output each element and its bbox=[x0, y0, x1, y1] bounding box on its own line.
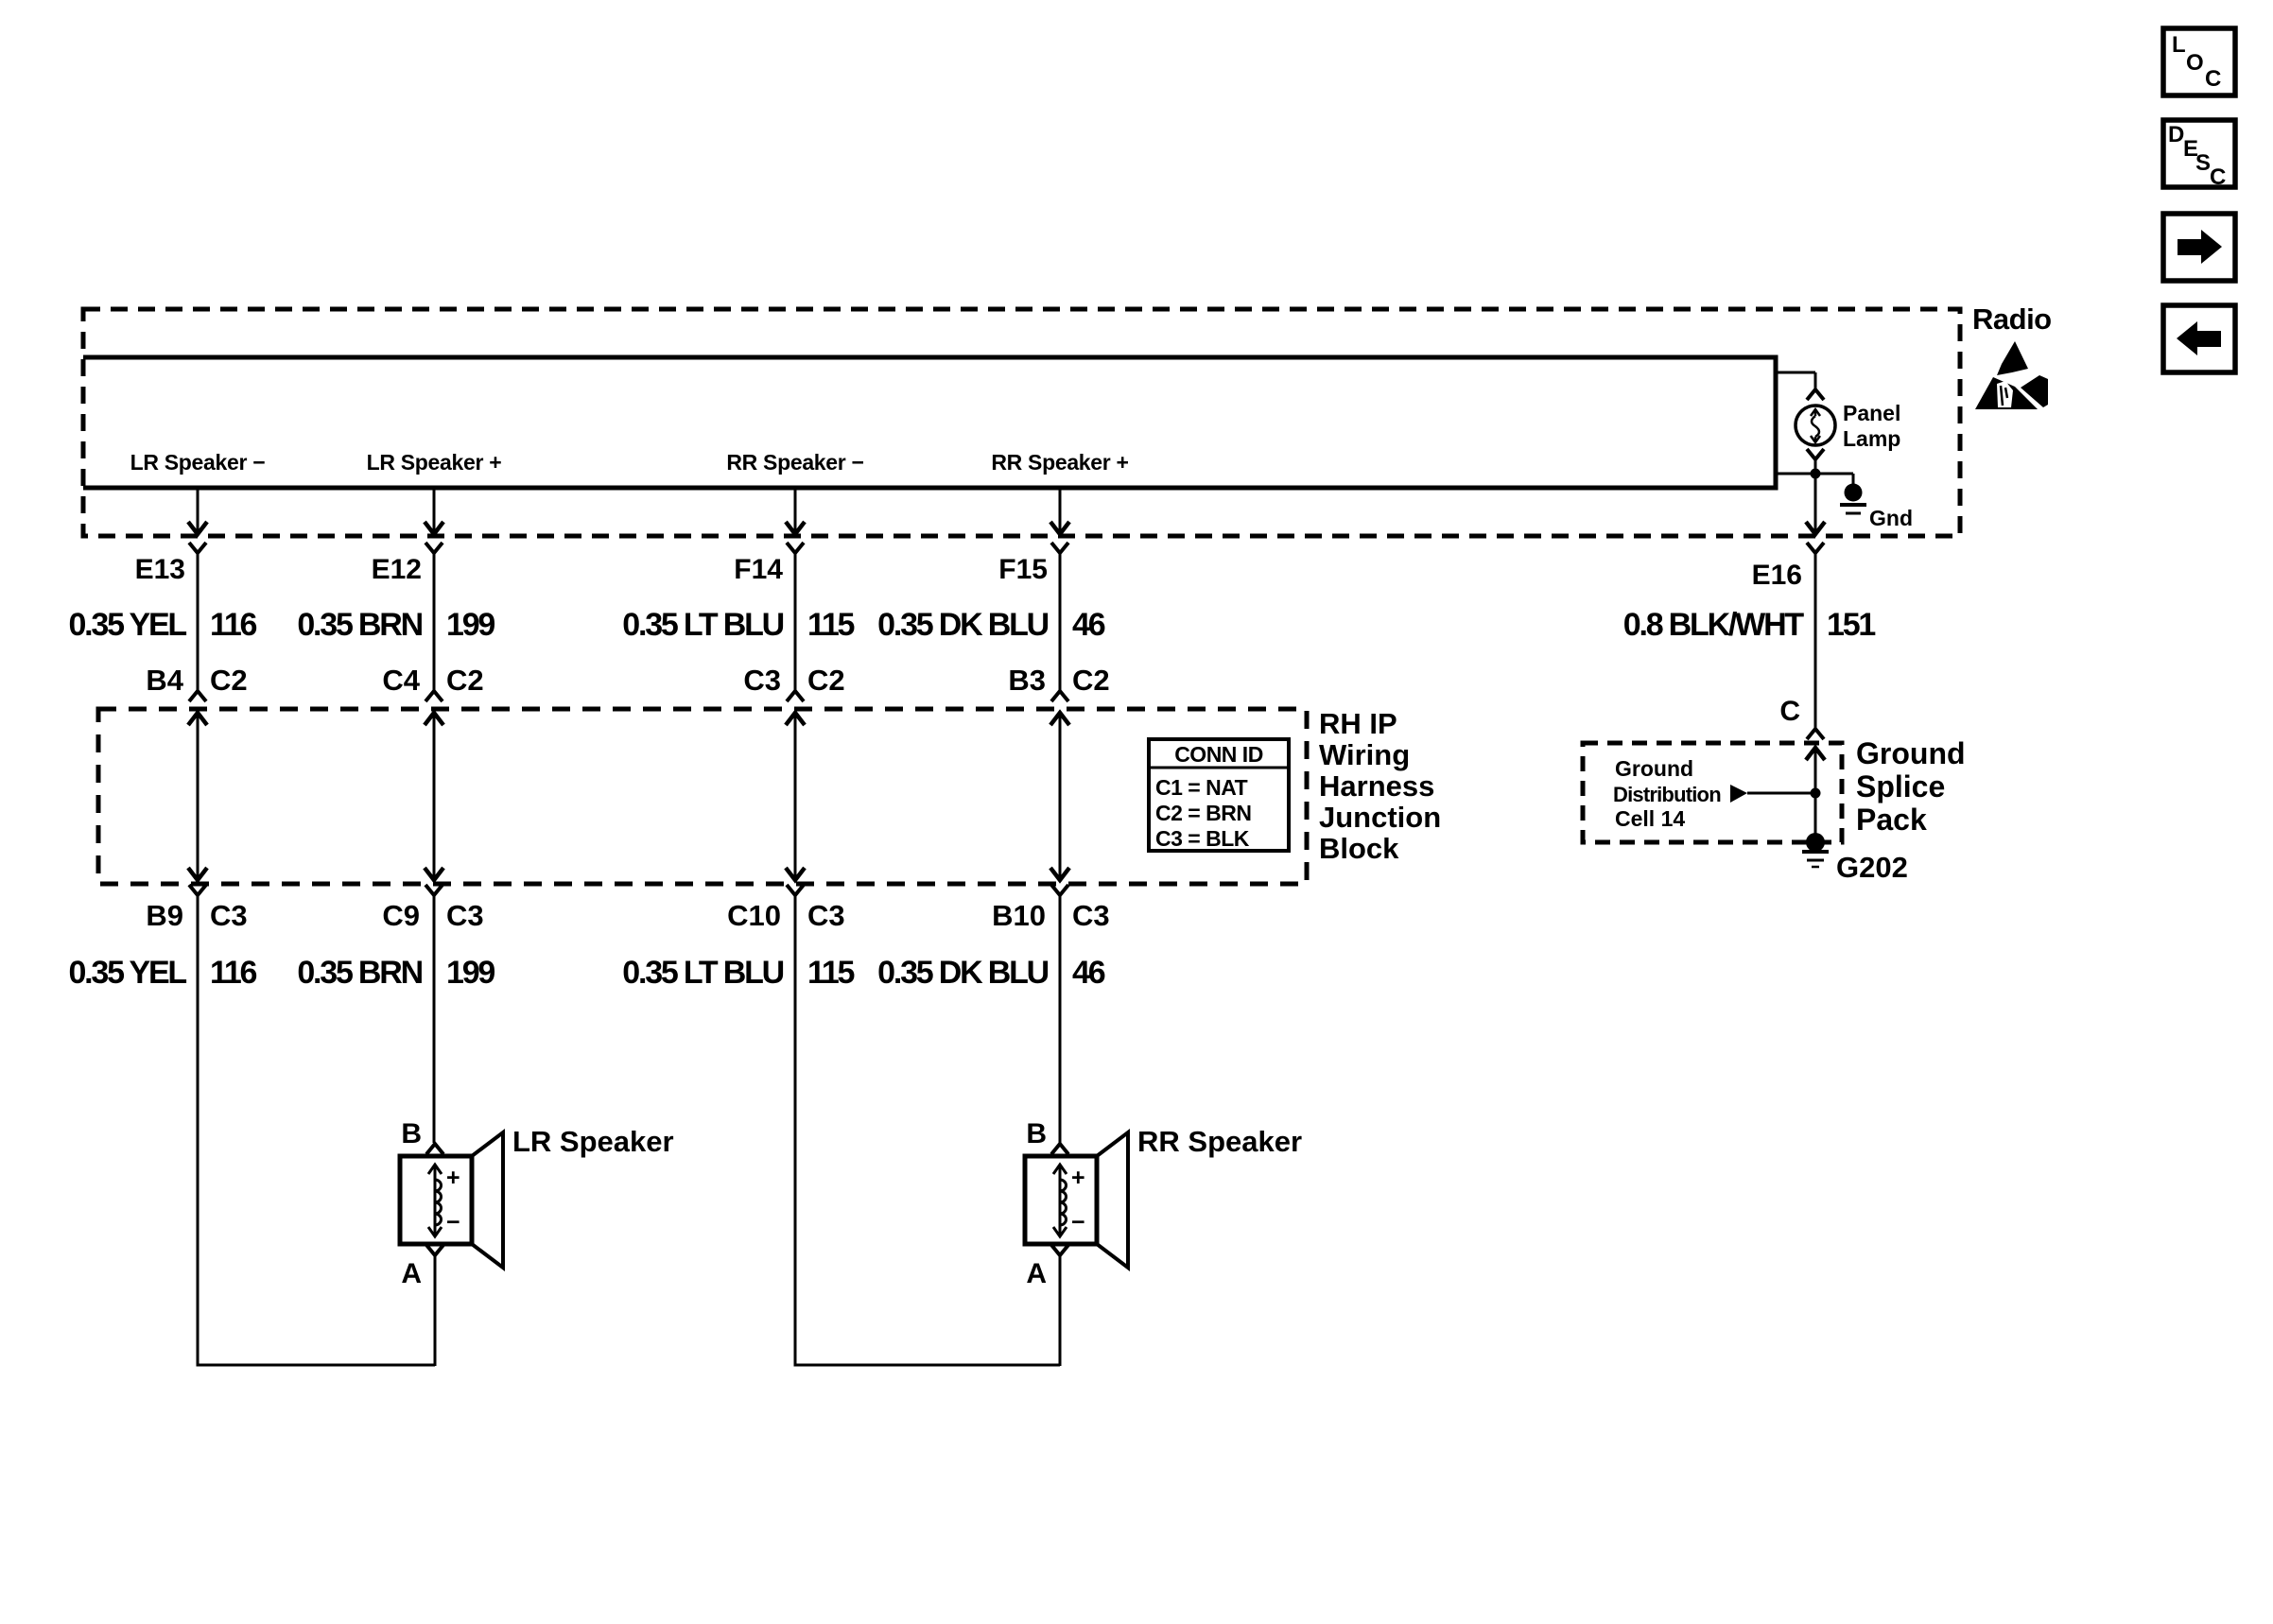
svg-text:0.35 BRN: 0.35 BRN bbox=[297, 607, 422, 643]
svg-text:G202: G202 bbox=[1836, 851, 1908, 884]
svg-text:46: 46 bbox=[1072, 955, 1105, 991]
svg-text:C2: C2 bbox=[807, 664, 845, 697]
svg-text:RR Speaker: RR Speaker bbox=[1137, 1125, 1302, 1158]
svg-text:199: 199 bbox=[446, 607, 495, 643]
svg-text:C2 = BRN: C2 = BRN bbox=[1155, 801, 1251, 825]
svg-text:199: 199 bbox=[446, 955, 495, 991]
svg-text:C9: C9 bbox=[382, 899, 420, 932]
svg-text:B3: B3 bbox=[1008, 664, 1046, 697]
svg-text:C: C bbox=[2205, 66, 2221, 92]
svg-text:Cell 14: Cell 14 bbox=[1615, 806, 1685, 831]
svg-text:F15: F15 bbox=[998, 554, 1048, 585]
svg-text:C2: C2 bbox=[446, 664, 484, 697]
svg-text:L: L bbox=[2172, 32, 2186, 58]
svg-text:Ground: Ground bbox=[1856, 736, 1966, 770]
svg-text:Lamp: Lamp bbox=[1843, 426, 1900, 451]
svg-text:Splice: Splice bbox=[1856, 769, 1945, 803]
svg-text:Ground: Ground bbox=[1615, 756, 1693, 781]
svg-text:46: 46 bbox=[1072, 607, 1105, 643]
svg-text:Junction: Junction bbox=[1319, 801, 1441, 834]
svg-text:S: S bbox=[2195, 150, 2211, 176]
svg-text:+: + bbox=[446, 1165, 460, 1191]
svg-text:−: − bbox=[1071, 1209, 1085, 1235]
svg-text:C: C bbox=[1779, 696, 1800, 727]
svg-text:B9: B9 bbox=[146, 899, 183, 932]
svg-text:LR Speaker −: LR Speaker − bbox=[130, 450, 266, 475]
svg-text:115: 115 bbox=[807, 607, 855, 643]
svg-text:RH IP: RH IP bbox=[1319, 707, 1397, 740]
svg-text:C1 = NAT: C1 = NAT bbox=[1155, 775, 1248, 800]
svg-text:D: D bbox=[2168, 122, 2184, 147]
svg-text:C3: C3 bbox=[807, 899, 845, 932]
svg-text:C2: C2 bbox=[1072, 664, 1110, 697]
svg-text:151: 151 bbox=[1827, 607, 1875, 643]
svg-text:CONN ID: CONN ID bbox=[1174, 742, 1263, 767]
svg-text:A: A bbox=[401, 1258, 422, 1289]
svg-text:LR Speaker: LR Speaker bbox=[512, 1125, 674, 1158]
svg-text:C3 = BLK: C3 = BLK bbox=[1155, 826, 1250, 851]
svg-text:0.35 BRN: 0.35 BRN bbox=[297, 955, 422, 991]
svg-text:B4: B4 bbox=[146, 664, 183, 697]
svg-text:0.35 YEL: 0.35 YEL bbox=[68, 955, 186, 991]
svg-text:116: 116 bbox=[210, 955, 257, 991]
svg-text:116: 116 bbox=[210, 607, 257, 643]
svg-text:0.35 DK BLU: 0.35 DK BLU bbox=[877, 955, 1048, 991]
svg-text:LR Speaker +: LR Speaker + bbox=[367, 450, 502, 475]
svg-text:B: B bbox=[1026, 1118, 1047, 1149]
svg-text:E13: E13 bbox=[135, 554, 185, 585]
svg-text:C: C bbox=[2210, 164, 2226, 190]
svg-text:Radio: Radio bbox=[1972, 302, 2052, 336]
svg-text:E16: E16 bbox=[1752, 560, 1802, 591]
svg-text:C3: C3 bbox=[446, 899, 484, 932]
svg-text:C3: C3 bbox=[743, 664, 781, 697]
svg-text:E12: E12 bbox=[372, 554, 422, 585]
svg-text:Gnd: Gnd bbox=[1869, 506, 1913, 530]
svg-text:B10: B10 bbox=[992, 899, 1046, 932]
svg-text:RR Speaker +: RR Speaker + bbox=[991, 450, 1128, 475]
svg-text:C3: C3 bbox=[210, 899, 248, 932]
svg-text:C10: C10 bbox=[727, 899, 781, 932]
svg-text:0.8 BLK/WHT: 0.8 BLK/WHT bbox=[1623, 607, 1805, 643]
svg-text:0.35 DK BLU: 0.35 DK BLU bbox=[877, 607, 1048, 643]
svg-text:A: A bbox=[1026, 1258, 1047, 1289]
svg-text:−: − bbox=[446, 1209, 460, 1235]
svg-text:Harness: Harness bbox=[1319, 769, 1434, 803]
svg-text:+: + bbox=[1071, 1165, 1085, 1191]
svg-text:B: B bbox=[401, 1118, 422, 1149]
svg-text:Wiring: Wiring bbox=[1319, 738, 1410, 771]
svg-text:Pack: Pack bbox=[1856, 803, 1927, 837]
svg-text:C2: C2 bbox=[210, 664, 248, 697]
svg-text:115: 115 bbox=[807, 955, 855, 991]
svg-text:Block: Block bbox=[1319, 832, 1399, 865]
svg-text:Panel: Panel bbox=[1843, 401, 1900, 425]
svg-text:0.35 LT BLU: 0.35 LT BLU bbox=[622, 607, 783, 643]
svg-text:RR Speaker −: RR Speaker − bbox=[726, 450, 863, 475]
svg-text:F14: F14 bbox=[734, 554, 783, 585]
svg-text:0.35 YEL: 0.35 YEL bbox=[68, 607, 186, 643]
svg-text:C3: C3 bbox=[1072, 899, 1110, 932]
svg-text:O: O bbox=[2186, 50, 2204, 76]
svg-text:C4: C4 bbox=[382, 664, 420, 697]
svg-text:0.35 LT BLU: 0.35 LT BLU bbox=[622, 955, 783, 991]
svg-text:Distribution: Distribution bbox=[1613, 783, 1721, 806]
